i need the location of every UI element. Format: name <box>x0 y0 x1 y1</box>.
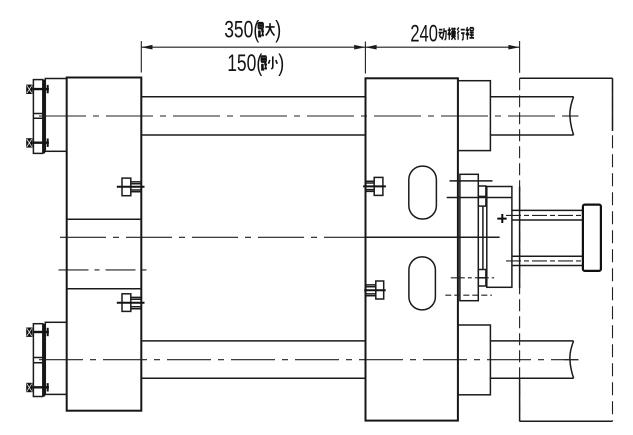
moving platen top boss <box>458 81 491 151</box>
upper slot <box>409 166 437 219</box>
bolt B2 shaft <box>32 141 49 143</box>
dimension line 240 stroke <box>365 45 519 50</box>
phantom box top edge <box>520 77 613 79</box>
upper rod centerline <box>506 214 582 216</box>
guide centerline L3 <box>451 277 494 279</box>
connector strip between ejector plates <box>482 206 484 269</box>
main horizontal centerline <box>60 236 366 238</box>
lower slot <box>409 257 436 310</box>
ejector end cap <box>583 205 601 271</box>
CJK xing <box>457 27 465 39</box>
phantom box left edge solid lower part <box>519 378 521 421</box>
tie bar top left segment <box>141 97 365 135</box>
bolt B2 washer tick <box>47 139 49 147</box>
bolt B4 shaft <box>32 386 49 388</box>
bolt B1 head <box>26 85 32 94</box>
mold plate B bottom-left <box>45 322 66 394</box>
svg-text:): ) <box>275 17 281 44</box>
tie bar bottom centerline <box>39 359 579 361</box>
svg-text:350(: 350( <box>224 17 259 44</box>
dimension text 350(max) <box>224 17 281 44</box>
phantom box right edge solid upper part <box>612 78 614 131</box>
plate A notch lines bottom <box>33 358 44 363</box>
svg-text:): ) <box>278 50 284 77</box>
fixed platen internal line upper <box>67 218 142 220</box>
dimension extension line middle (x=365) <box>364 42 366 74</box>
CJK cheng <box>466 27 474 40</box>
clamp fitting lower on fixed platen <box>117 294 145 312</box>
tie bar top centerline end tick <box>564 115 579 117</box>
mold clamp plate A top-left <box>33 80 42 154</box>
guide line L1 <box>450 180 493 182</box>
clamp fitting lower on moving platen <box>364 281 386 299</box>
dimension extension line right (x=520) <box>519 41 521 73</box>
plate A notch lines top <box>33 114 44 119</box>
main centerline solid part through moving platen <box>366 236 500 238</box>
tie bar top centerline <box>39 115 579 117</box>
dimension line 350 max <box>141 45 365 50</box>
clamp fitting upper on fixed platen <box>117 178 145 196</box>
guide line L2 <box>447 197 512 199</box>
parting face thick line bottom-left <box>43 324 45 397</box>
phantom box left edge solid middle segment <box>519 187 521 289</box>
bolt B3 head <box>26 328 32 337</box>
bolt B4 head <box>26 383 32 392</box>
bolt B3 washer tick <box>47 328 49 336</box>
moving platen bottom boss <box>458 325 491 395</box>
dimension text 150(min) <box>227 50 284 77</box>
upper connector block <box>478 186 486 206</box>
dimension text 240 moving stroke <box>410 21 474 48</box>
bolt B4 washer tick <box>47 383 49 391</box>
moving platen <box>366 78 458 420</box>
lower ejector rod <box>512 256 583 265</box>
tie bar bottom right segment with break curve <box>490 341 573 378</box>
ejector plate A <box>460 174 478 300</box>
bolt B1 washer tick <box>47 85 49 93</box>
upper ejector rod <box>512 210 583 220</box>
parting face thick line top-left <box>43 80 45 154</box>
dimension extension line left (x=141) <box>140 41 142 73</box>
center mark cross <box>497 214 506 223</box>
bolt B3 shaft <box>34 331 49 333</box>
svg-text:150(: 150( <box>227 50 262 77</box>
tie bar bottom left segment <box>141 341 365 378</box>
CJK dong <box>439 28 447 39</box>
tie bar bottom centerline end tick <box>564 359 579 361</box>
phantom box left dashed edge <box>519 78 521 421</box>
svg-text:240: 240 <box>410 21 438 48</box>
hidden line L4 <box>445 294 492 296</box>
lower connector block <box>478 270 486 287</box>
phantom box bottom edge <box>520 420 613 422</box>
secondary dash-dot line in fixed platen <box>59 269 150 271</box>
fixed platen internal line lower <box>67 288 142 290</box>
CJK mo <box>448 27 456 39</box>
ejector plate B <box>487 187 512 288</box>
bolt B1 shaft <box>32 88 49 90</box>
bolt B2 head <box>26 138 32 147</box>
clamp fitting upper on moving platen <box>363 177 386 195</box>
mold plate B top-left <box>45 79 66 152</box>
phantom box right dashed edge <box>612 78 614 421</box>
mold clamp plate A bottom-left <box>33 324 42 397</box>
tie bar top right segment with break curve <box>490 97 573 135</box>
fixed platen (left big plate) <box>67 78 142 411</box>
lower rod centerline <box>506 260 582 262</box>
